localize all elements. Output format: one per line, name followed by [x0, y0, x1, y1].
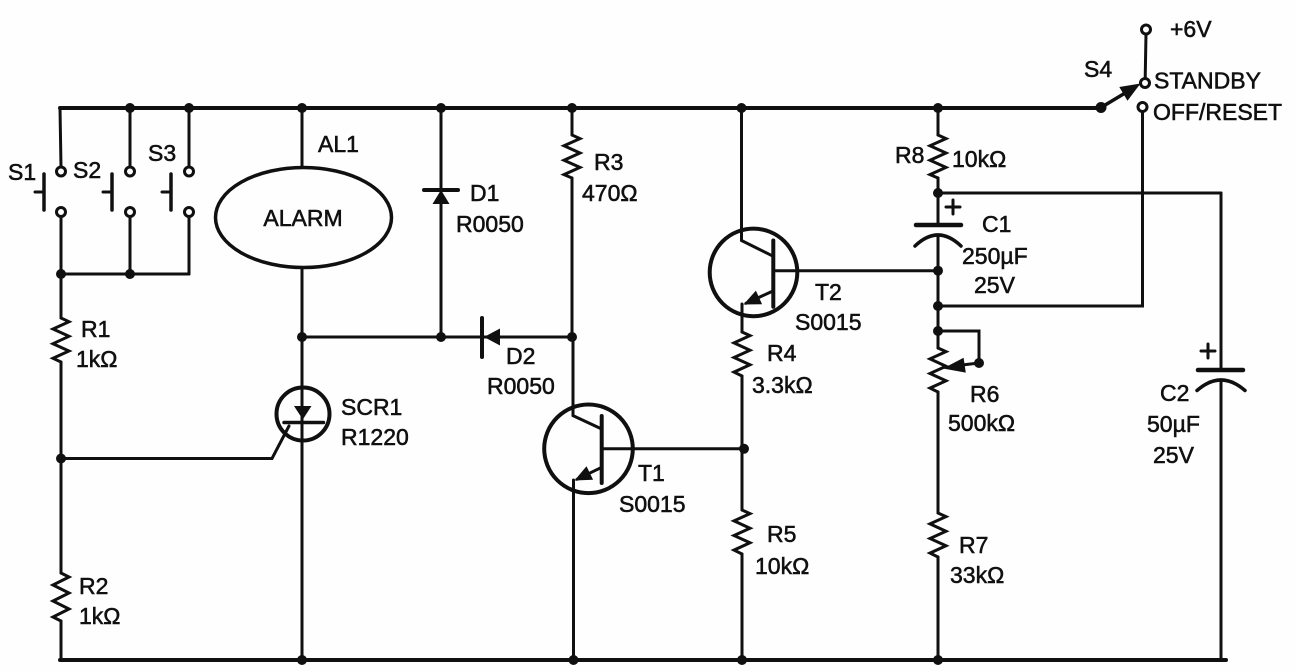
capacitor C2	[1201, 350, 1215, 353]
wire T2 emitter to R4	[741, 304, 744, 332]
wire S1 bottom to junction	[60, 216, 63, 274]
resistor R1	[53, 318, 69, 362]
wire S2 stub from top rail	[129, 108, 132, 167]
wire C1-R8 node to C2 (y193)	[938, 192, 1221, 195]
wire S2 bottom to junction line	[129, 216, 132, 274]
svg-text:R0050: R0050	[456, 211, 524, 237]
svg-text:STANDBY: STANDBY	[1154, 68, 1261, 94]
svg-text:S3: S3	[148, 140, 176, 166]
switch S1	[57, 167, 66, 176]
wire SCR anode	[301, 337, 304, 440]
alarm AL1 ellipse	[216, 168, 392, 268]
svg-text:33kΩ: 33kΩ	[950, 562, 1004, 588]
svg-text:C2: C2	[1160, 380, 1189, 406]
wire C1 bottom through nodes	[937, 237, 940, 348]
wire junction to R1	[60, 274, 63, 318]
node bottom rail R7	[933, 655, 943, 665]
wire node to R5	[741, 449, 744, 510]
node bottom rail T1	[569, 655, 579, 665]
wire gate node to R2	[60, 458, 63, 573]
node R8-C1	[933, 188, 943, 198]
svg-text:T2: T2	[815, 279, 842, 305]
svg-text:500kΩ: 500kΩ	[948, 410, 1015, 436]
wire AL1 top	[301, 108, 304, 168]
transistor T2	[710, 229, 798, 317]
svg-text:SCR1: SCR1	[341, 394, 402, 420]
resistor R5	[734, 510, 750, 554]
svg-text:1kΩ: 1kΩ	[76, 346, 118, 372]
node gate tap	[56, 454, 66, 464]
svg-text:R4: R4	[767, 340, 797, 366]
svg-text:50µF: 50µF	[1147, 411, 1200, 437]
wire R1 to gate node	[60, 362, 63, 458]
wire R2 to bottom rail	[60, 621, 63, 660]
svg-text:R5: R5	[767, 521, 796, 547]
resistor R2	[53, 573, 69, 621]
svg-text:25V: 25V	[974, 272, 1016, 298]
svg-text:R3: R3	[594, 149, 623, 175]
svg-text:R2: R2	[79, 573, 108, 599]
node y337 D1	[436, 332, 446, 342]
svg-text:R6: R6	[970, 381, 999, 407]
resistor R3	[571, 108, 574, 135]
svg-text:AL1: AL1	[318, 131, 359, 157]
wire SCR cathode to bottom rail	[301, 440, 304, 660]
diode D2	[480, 318, 484, 357]
node y337 R3	[567, 332, 577, 342]
transistor T1	[544, 405, 633, 494]
resistor R8	[937, 108, 940, 135]
wire off/reset return line y306	[938, 112, 1143, 307]
wire R5 to bottom rail	[741, 554, 744, 660]
svg-text:3.3kΩ: 3.3kΩ	[752, 372, 813, 398]
wire C2 bottom to rail	[1220, 382, 1223, 660]
node S2 bottom junction	[125, 269, 135, 279]
svg-text:+6V: +6V	[1170, 16, 1212, 42]
wire R4 to node	[741, 376, 744, 449]
svg-text:S1: S1	[8, 159, 36, 185]
resistor R7	[930, 513, 946, 557]
svg-text:D2: D2	[506, 343, 535, 369]
wire bottom rail	[60, 658, 1226, 662]
node top rail AL1	[297, 103, 307, 113]
svg-text:S2: S2	[73, 157, 101, 183]
switch S2	[126, 167, 135, 176]
wire switch-bottom junction line	[61, 273, 189, 276]
diode D1	[440, 108, 443, 337]
svg-text:S0015: S0015	[795, 309, 862, 335]
node bottom rail SCR	[297, 655, 307, 665]
svg-text:25V: 25V	[1153, 442, 1195, 468]
node R6 wiper end	[974, 358, 984, 368]
wire S3 stub from top rail	[188, 108, 191, 167]
wire T1 emitter to bottom rail	[572, 480, 575, 660]
wire +6V to standby contact	[1144, 34, 1148, 79]
wire S3 bottom to junction line	[188, 216, 191, 274]
svg-text:R7: R7	[959, 532, 988, 558]
svg-text:R1220: R1220	[341, 424, 409, 450]
wire R3 bottom to node	[571, 178, 574, 337]
svg-text:ALARM: ALARM	[263, 205, 342, 231]
svg-text:D1: D1	[470, 180, 499, 206]
node S4 pole	[1096, 102, 1107, 113]
node y337 alarm	[297, 332, 307, 342]
svg-text:10kΩ: 10kΩ	[952, 146, 1006, 172]
potentiometer R6	[930, 348, 946, 392]
wire AL1 bottom	[301, 268, 304, 338]
wire node line y337	[302, 336, 573, 339]
node top rail S3	[184, 103, 194, 113]
capacitor C1	[946, 206, 960, 209]
wire R7 to bottom rail	[937, 557, 940, 660]
resistor R4	[734, 332, 750, 376]
svg-text:10kΩ: 10kΩ	[755, 553, 809, 579]
node R6 wiper tap	[933, 326, 943, 336]
node top rail R8	[933, 103, 943, 113]
switch S3	[185, 167, 194, 176]
wire R6 to R7	[937, 392, 940, 513]
switch S4	[1101, 93, 1126, 108]
node R4-R5 junction	[739, 444, 749, 454]
node top rail T2	[737, 103, 747, 113]
wire SCR1 gate	[61, 426, 289, 459]
node top rail R3	[567, 103, 577, 113]
node off/reset return	[933, 301, 943, 311]
svg-text:R1: R1	[81, 316, 110, 342]
node top rail D1	[436, 103, 446, 113]
node C1-T2 base	[933, 266, 943, 276]
svg-text:250µF: 250µF	[962, 243, 1028, 269]
svg-text:470Ω: 470Ω	[582, 180, 638, 206]
node top rail S2	[125, 103, 135, 113]
wire left rail upper (to S1 top contact)	[60, 108, 61, 167]
wire top rail	[60, 106, 1101, 110]
svg-text:R8: R8	[895, 142, 924, 168]
svg-text:T1: T1	[638, 460, 665, 486]
node S1 bottom junction	[56, 269, 66, 279]
svg-text:1kΩ: 1kΩ	[79, 603, 121, 629]
svg-text:C1: C1	[982, 211, 1011, 237]
svg-text:S0015: S0015	[619, 491, 686, 517]
svg-text:S4: S4	[1084, 56, 1112, 82]
node bottom rail R5	[737, 655, 747, 665]
svg-text:OFF/RESET: OFF/RESET	[1153, 99, 1282, 125]
svg-text:R0050: R0050	[487, 373, 555, 399]
thyristor SCR1	[277, 388, 330, 441]
